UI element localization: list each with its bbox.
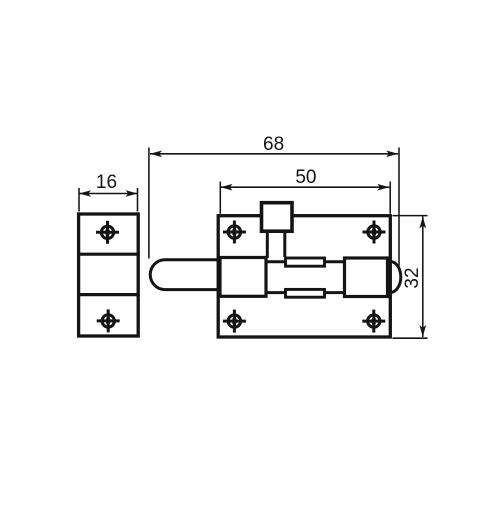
dim 50 arrow left bbox=[221, 184, 233, 191]
screw keeper bottom bbox=[97, 309, 120, 332]
dim 50 extension line right bbox=[389, 182, 391, 214]
screw body top-right bbox=[363, 221, 386, 244]
screw keeper top bbox=[96, 221, 119, 244]
knob stem right line bbox=[283, 231, 286, 257]
bolt round tip at right edge bbox=[390, 262, 401, 293]
dim 32 extension line top bbox=[393, 215, 428, 217]
dim 16 dimension line bbox=[79, 193, 138, 195]
dim 32 extension line bottom bbox=[393, 337, 428, 339]
knob stem left line bbox=[266, 231, 269, 258]
bolt rod bottom edge segment (left of guide bar) bbox=[265, 291, 286, 294]
knob square bbox=[262, 203, 293, 232]
keeper plate outline bbox=[79, 214, 139, 336]
dim 32 dimension line bbox=[422, 216, 424, 337]
dim 68 extension line left bbox=[148, 148, 150, 259]
bolt rod top edge segment (left of guide bar) bbox=[265, 260, 286, 263]
upper guide bar bbox=[286, 258, 325, 266]
svg-text:32: 32 bbox=[402, 267, 423, 288]
dim 32 arrow up bbox=[420, 216, 427, 228]
dim 50 extension line left bbox=[219, 182, 221, 214]
dim 50 dimension line bbox=[221, 186, 390, 188]
dim 16 extension line right bbox=[137, 188, 139, 212]
bolt left head block bbox=[220, 258, 266, 297]
dim 68 arrow left bbox=[150, 151, 162, 158]
svg-text:50: 50 bbox=[295, 167, 316, 188]
bolt rod top edge segment (right of guide bar) bbox=[324, 260, 345, 263]
screw body top-left bbox=[223, 221, 246, 244]
dim 68 arrow right bbox=[386, 151, 398, 158]
dim 68 extension line right bbox=[398, 148, 400, 270]
svg-text:16: 16 bbox=[96, 172, 117, 193]
keeper plate divider upper bbox=[77, 253, 140, 256]
bolt rod left capsule end bbox=[150, 260, 220, 290]
screw body bottom-left bbox=[223, 310, 246, 333]
dim 16 arrow right bbox=[126, 190, 138, 197]
dim 16 arrow left bbox=[79, 190, 91, 197]
svg-text:68: 68 bbox=[263, 134, 284, 155]
dim 16 extension line left bbox=[78, 188, 80, 212]
lower guide bar bbox=[286, 289, 325, 297]
dim 32 arrow down bbox=[420, 325, 427, 337]
bolt right end block bbox=[345, 258, 388, 297]
dim 50 arrow right bbox=[377, 184, 389, 191]
keeper plate divider lower bbox=[77, 293, 140, 296]
body plate outline bbox=[218, 216, 390, 337]
bolt rod bottom edge segment (right of guide bar) bbox=[324, 291, 345, 294]
screw body bottom-right bbox=[362, 310, 385, 333]
dim 68 dimension line bbox=[150, 153, 398, 155]
